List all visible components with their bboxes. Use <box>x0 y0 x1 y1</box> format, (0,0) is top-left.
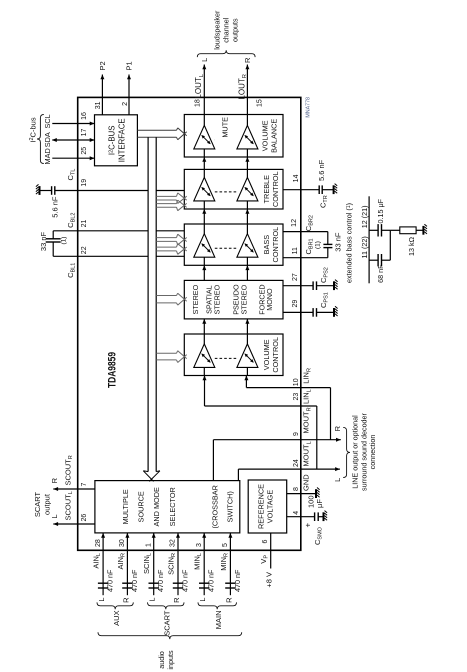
svg-text:16: 16 <box>81 112 88 120</box>
svg-text:BALANCE: BALANCE <box>269 119 278 153</box>
svg-text:26: 26 <box>81 514 88 522</box>
svg-text:SWITCH): SWITCH) <box>226 491 235 522</box>
svg-text:R: R <box>172 597 181 603</box>
svg-text:11 (22): 11 (22) <box>360 236 369 258</box>
svg-text:32: 32 <box>170 539 177 547</box>
svg-text:14: 14 <box>293 174 300 182</box>
svg-text:9: 9 <box>293 432 300 436</box>
svg-text:5: 5 <box>222 543 229 547</box>
svg-text:AND MODE: AND MODE <box>152 487 161 526</box>
svg-text:31: 31 <box>95 101 102 109</box>
svg-text:11: 11 <box>292 247 299 254</box>
svg-text:470 nF: 470 nF <box>106 569 115 592</box>
svg-text:12 (21): 12 (21) <box>360 205 369 228</box>
svg-text:μF: μF <box>315 499 324 508</box>
svg-text:25: 25 <box>81 147 88 155</box>
svg-text:17: 17 <box>81 129 88 137</box>
svg-text:STEREO: STEREO <box>191 284 200 314</box>
svg-text:29: 29 <box>292 300 299 308</box>
svg-text:13 kΩ: 13 kΩ <box>407 236 416 256</box>
svg-text:connection: connection <box>368 435 377 470</box>
svg-text:L: L <box>148 598 157 602</box>
svg-text:STEREO: STEREO <box>240 284 249 314</box>
svg-text:CONTROL: CONTROL <box>271 227 280 263</box>
svg-text:R: R <box>224 597 233 603</box>
svg-text:REFERENCE: REFERENCE <box>257 484 266 529</box>
svg-text:L: L <box>200 58 209 62</box>
svg-text:23: 23 <box>293 393 300 401</box>
svg-text:24: 24 <box>293 459 300 467</box>
svg-text:3: 3 <box>196 543 203 547</box>
svg-text:470 nF: 470 nF <box>180 569 189 592</box>
svg-text:SOURCE: SOURCE <box>137 491 146 522</box>
svg-text:SELECTOR: SELECTOR <box>168 487 177 526</box>
svg-text:470 nF: 470 nF <box>207 569 216 592</box>
svg-text:470 nF: 470 nF <box>130 569 139 592</box>
svg-text:surround sound decoder: surround sound decoder <box>359 412 368 491</box>
svg-text:+8 V: +8 V <box>265 572 274 588</box>
svg-text:audio: audio <box>157 651 166 669</box>
svg-text:loudspeaker: loudspeaker <box>213 10 222 50</box>
svg-text:L: L <box>333 478 342 482</box>
svg-text:7: 7 <box>81 483 88 487</box>
svg-text:MAIN: MAIN <box>214 611 223 630</box>
svg-text:VOLUME: VOLUME <box>262 339 271 370</box>
svg-text:0.15 μF: 0.15 μF <box>376 198 385 223</box>
svg-text:MNA778: MNA778 <box>306 97 312 118</box>
svg-text:R: R <box>333 425 342 431</box>
svg-text:4: 4 <box>293 511 300 515</box>
svg-text:I2C-BUS: I2C-BUS <box>108 126 117 156</box>
svg-text:470 nF: 470 nF <box>156 569 165 592</box>
svg-text:LINE output or optional: LINE output or optional <box>351 415 360 489</box>
svg-text:P2: P2 <box>98 61 107 70</box>
svg-text:VOLUME: VOLUME <box>261 120 270 151</box>
svg-text:12: 12 <box>291 219 298 227</box>
svg-text:outputs: outputs <box>231 18 240 42</box>
svg-text:33 nF: 33 nF <box>39 231 48 251</box>
svg-text:R: R <box>50 477 59 483</box>
svg-text:15: 15 <box>257 99 264 107</box>
svg-text:(1): (1) <box>314 241 321 249</box>
svg-text:MULTIPLE: MULTIPLE <box>121 489 130 524</box>
svg-text:1: 1 <box>145 543 152 547</box>
svg-text:P1: P1 <box>124 61 133 70</box>
svg-text:28: 28 <box>95 539 102 547</box>
svg-text:22: 22 <box>81 246 88 254</box>
svg-text:L: L <box>50 514 59 518</box>
svg-text:MAD: MAD <box>43 148 52 164</box>
svg-text:SDA: SDA <box>43 132 52 147</box>
svg-text:8: 8 <box>293 487 300 491</box>
svg-text:30: 30 <box>119 539 126 547</box>
svg-text:VOLTAGE: VOLTAGE <box>266 490 275 524</box>
svg-text:output: output <box>43 493 52 515</box>
svg-text:+: + <box>303 522 312 527</box>
svg-text:27: 27 <box>292 273 299 281</box>
svg-text:5.6 nF: 5.6 nF <box>317 159 326 181</box>
svg-text:INTERFACE: INTERFACE <box>118 118 127 162</box>
svg-text:GND: GND <box>302 474 311 491</box>
svg-text:SCART: SCART <box>33 491 42 517</box>
svg-text:L: L <box>97 598 106 602</box>
svg-text:33 nF: 33 nF <box>334 232 343 252</box>
svg-text:5.6 nF: 5.6 nF <box>51 196 60 218</box>
svg-text:470 nF: 470 nF <box>233 569 242 592</box>
svg-text:channel: channel <box>222 17 231 43</box>
svg-text:6: 6 <box>262 540 269 544</box>
svg-text:68 nF: 68 nF <box>376 264 385 283</box>
svg-text:2: 2 <box>122 102 129 106</box>
svg-text:CONTROL: CONTROL <box>271 337 280 373</box>
svg-text:MUTE: MUTE <box>221 117 230 138</box>
svg-text:(1): (1) <box>61 237 68 245</box>
svg-text:CONTROL: CONTROL <box>271 171 280 207</box>
svg-text:19: 19 <box>81 179 88 187</box>
svg-text:10: 10 <box>293 378 300 386</box>
svg-text:extended bass control (1): extended bass control (1) <box>345 203 354 283</box>
svg-text:R: R <box>243 57 252 63</box>
svg-text:L: L <box>198 598 207 602</box>
svg-text:STEREO: STEREO <box>213 284 222 314</box>
svg-text:SCL: SCL <box>43 114 52 128</box>
svg-text:(CROSSBAR: (CROSSBAR <box>211 485 220 528</box>
svg-text:inputs: inputs <box>166 650 175 670</box>
svg-text:TREBLE: TREBLE <box>262 175 271 204</box>
svg-text:AUX: AUX <box>112 611 121 626</box>
svg-text:BASS: BASS <box>262 235 271 255</box>
svg-text:R: R <box>121 597 130 603</box>
svg-text:MONO: MONO <box>265 288 274 311</box>
svg-text:SCART: SCART <box>163 610 172 636</box>
svg-text:21: 21 <box>81 220 88 228</box>
svg-text:TDA9859: TDA9859 <box>107 352 119 388</box>
svg-text:18: 18 <box>195 99 202 107</box>
